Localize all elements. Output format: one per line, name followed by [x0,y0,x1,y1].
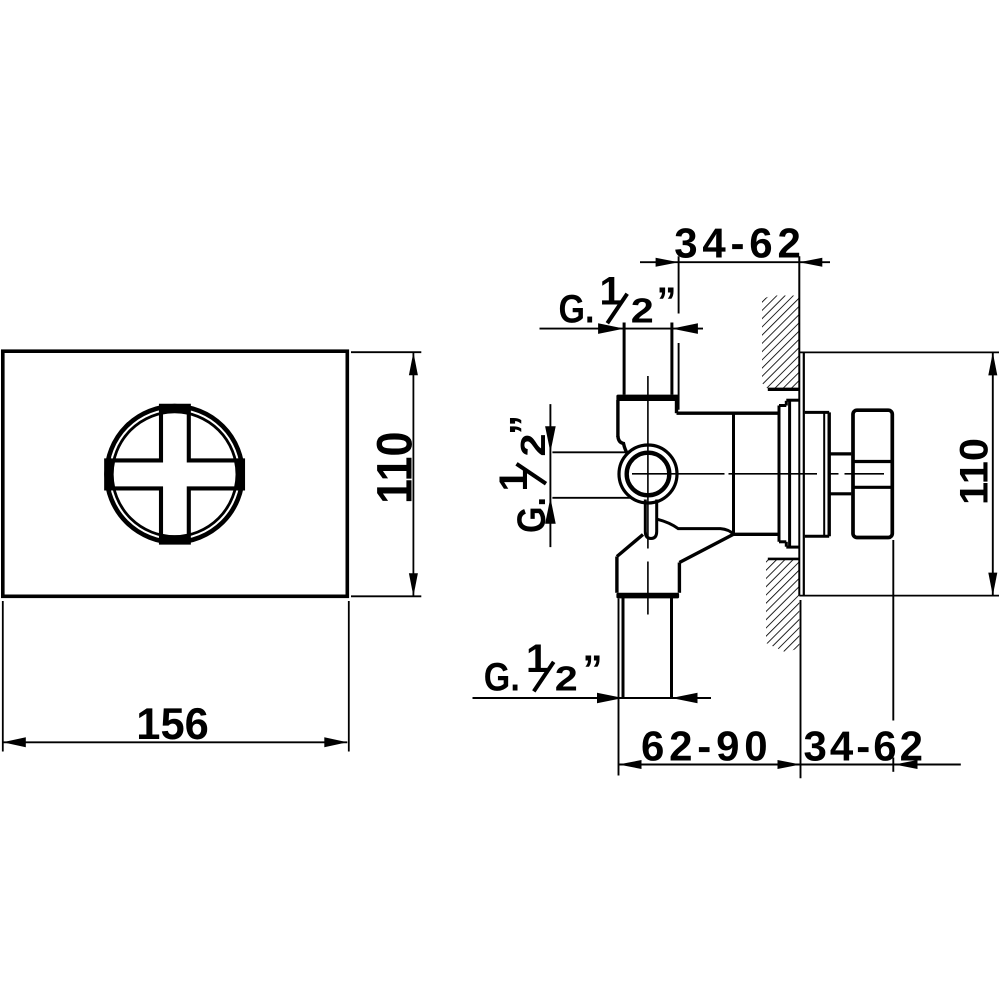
extension line bottom [351,595,421,597]
svg-text:”: ” [583,648,603,692]
side port outer circle [619,445,677,503]
plate bottom edge / 110 extension [799,595,999,597]
vertical centerline [647,376,649,615]
plate top edge / 110 extension [799,351,999,353]
dimension 110 right [992,352,994,595]
cross handle (white plus with outline) [106,406,243,543]
label G.1/2 bottom [484,637,603,700]
cartridge flange steps [779,400,799,547]
outlet wedge lower diagonal [679,534,733,562]
dimension line [3,741,348,743]
label G.1/2 rotated [492,415,554,533]
wall face line [798,256,800,595]
arrowhead up [409,352,418,375]
wall hatch lower top border [768,558,800,561]
cartridge sleeve through plate [805,412,829,536]
extension line top [351,351,421,353]
svg-text:110: 110 [953,438,997,505]
body lower right edge [678,563,681,593]
dimension G.1/2 bottom [473,697,712,699]
top pipe coupling cap [616,395,679,401]
wall hatching upper band [762,296,799,390]
label G.1/2 top [559,269,677,331]
svg-text:2: 2 [631,292,654,331]
drain stub below port [645,500,656,539]
svg-text:156: 156 [136,700,209,749]
handle trim outer circle [107,406,243,542]
arrowhead down [409,573,418,596]
svg-text:”: ” [657,280,677,324]
cross tip caps (black ring segments) [104,404,245,545]
body/cartridge separation line [732,413,735,534]
handle [853,410,892,537]
dimension G.1/2 top [540,328,704,330]
escutcheon plate front line [803,353,805,596]
svg-text:G.: G. [510,497,554,533]
arrowhead left [3,737,26,747]
dimension 156 (left view, bottom) [3,601,349,752]
wall plate front rectangle [3,351,348,596]
arrowhead right [324,737,347,747]
svg-text:110: 110 [367,432,423,505]
body lower left edge [615,557,618,593]
body lower left diagonal [617,535,643,557]
dimension line [412,352,414,596]
label 110 rotated [367,432,423,505]
body bottom edge [734,533,779,536]
dimension 34-62 top [640,256,830,409]
top inlet pipe [624,323,672,395]
handle grip band lines [853,460,892,463]
horizontal centerline [632,473,884,475]
handle stem [830,454,851,494]
svg-text:”: ” [503,415,547,435]
svg-text:G.: G. [559,288,595,332]
side port inner circle [627,453,670,496]
outlet wedge top edge [658,519,734,534]
bottom outlet pipe [623,598,672,697]
dimension G.1/2 side (rotated) [550,404,633,547]
extension line left [2,601,4,752]
dimension 110 (left view, right side) [351,352,421,596]
svg-text:G.: G. [484,656,520,700]
valve body upper outline [618,400,779,455]
handle trim inner circle [112,412,237,537]
svg-text:34-62: 34-62 [674,219,801,266]
bottom coupling cap [616,593,679,599]
svg-text:2: 2 [555,660,578,699]
dimension 62-90 / 34-62 bottom [619,540,961,778]
wall hatch upper bottom border [768,388,800,391]
extension line right [348,601,350,752]
svg-text:34-62: 34-62 [804,723,924,770]
wall hatching lower band [766,560,799,653]
svg-text:2: 2 [514,434,553,457]
svg-text:62-90: 62-90 [641,723,768,770]
